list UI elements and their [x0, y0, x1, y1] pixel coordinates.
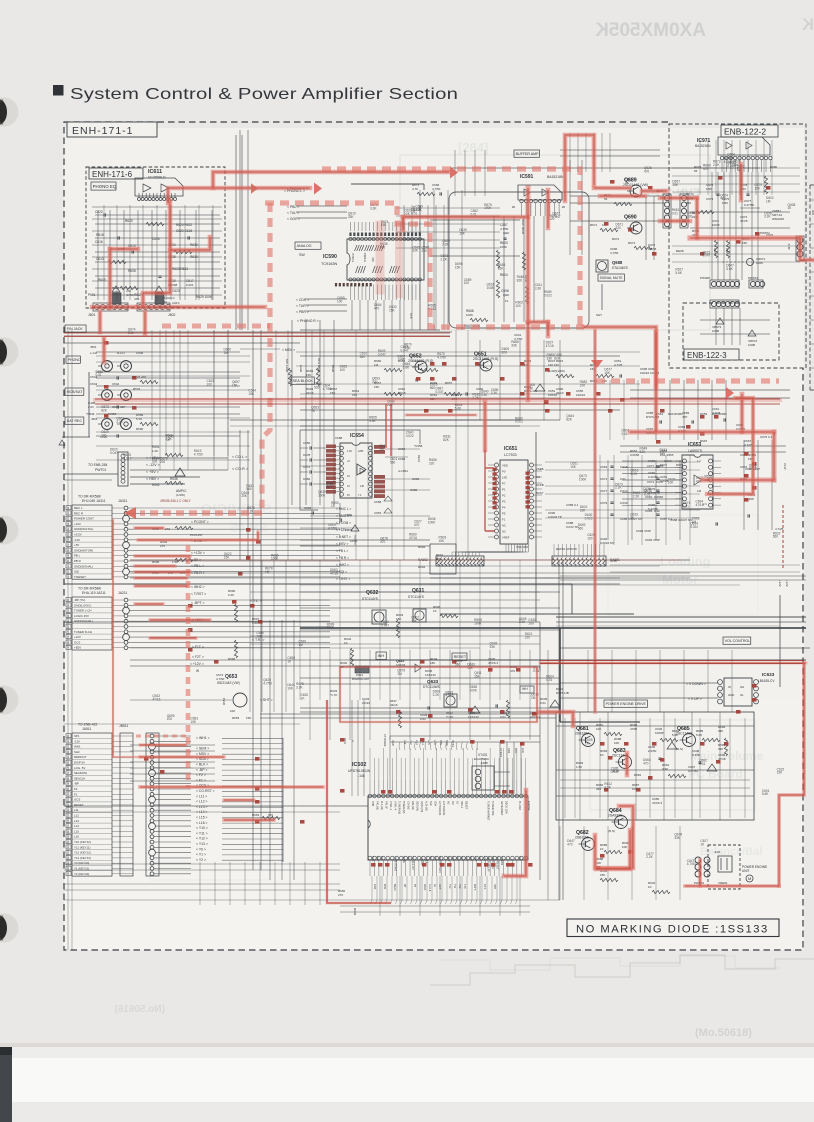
- svg-text:100K: 100K: [500, 245, 507, 249]
- svg-text:VOL CONTROL: VOL CONTROL: [725, 639, 751, 643]
- svg-text:(1/4W): (1/4W): [176, 493, 185, 497]
- svg-text:C675 0.1: C675 0.1: [760, 435, 773, 439]
- svg-text:TO ENB-284: TO ENB-284: [88, 463, 107, 467]
- svg-text:1.3K: 1.3K: [347, 450, 352, 453]
- svg-text:33K: 33K: [348, 215, 355, 219]
- svg-text:Y41.0F: Y41.0F: [384, 801, 387, 810]
- svg-text:IC591: IC591: [520, 174, 534, 180]
- svg-text:R602: R602: [418, 545, 426, 549]
- svg-text:< Y2 >: < Y2 >: [196, 858, 206, 862]
- svg-text:JL81: JL81: [714, 850, 721, 854]
- svg-text:W: W: [196, 669, 199, 673]
- svg-text:0.01: 0.01: [621, 432, 627, 436]
- svg-text:47/16: 47/16: [445, 694, 453, 698]
- svg-text:BN28101-097: BN28101-097: [352, 677, 370, 681]
- svg-text:C654: C654: [374, 511, 382, 515]
- svg-text:< F1 >: < F1 >: [196, 778, 206, 782]
- svg-text:L16: L16: [74, 835, 79, 839]
- svg-text:P4: P4: [502, 506, 506, 510]
- svg-text:< MSV >: < MSV >: [336, 542, 349, 546]
- svg-text:C677, 0.018: C677, 0.018: [647, 464, 664, 468]
- svg-text:0.01: 0.01: [672, 211, 678, 215]
- svg-text:LCTSSDATA: LCTSSDATA: [442, 801, 445, 816]
- svg-text:BH4: BH4: [383, 884, 386, 889]
- svg-text:(R,S): (R,S): [608, 829, 615, 833]
- svg-text:EHA-119 JA211: EHA-119 JA211: [82, 591, 106, 595]
- svg-text:470: 470: [374, 306, 380, 310]
- svg-text:1/50: 1/50: [706, 187, 712, 191]
- svg-text:(1/4W)(1/4W): (1/4W)(1/4W): [548, 369, 565, 373]
- svg-text:BEAS: BEAS: [393, 884, 396, 891]
- svg-text:STB: STB: [409, 313, 413, 319]
- svg-text:C679: C679: [600, 501, 608, 505]
- svg-text:1M: 1M: [223, 351, 228, 355]
- svg-text:15K: 15K: [439, 539, 446, 543]
- svg-text:DTC114WS: DTC114WS: [423, 685, 440, 689]
- svg-text:SEA BLOCK: SEA BLOCK: [293, 379, 314, 383]
- svg-text:R596: R596: [228, 657, 236, 661]
- svg-text:JA511: JA511: [82, 727, 91, 731]
- svg-text:C626: C626: [152, 237, 160, 241]
- svg-text:< +5V >: < +5V >: [146, 470, 159, 474]
- svg-text:IC590: IC590: [323, 254, 337, 260]
- svg-text:10K: 10K: [230, 709, 235, 713]
- svg-text:33K: 33K: [546, 357, 553, 361]
- svg-text:47K: 47K: [134, 297, 139, 301]
- svg-text:2.2K: 2.2K: [631, 472, 638, 476]
- svg-text:15K: 15K: [580, 509, 587, 513]
- svg-text:< -BPT >: < -BPT >: [191, 601, 205, 605]
- svg-text:LE: LE: [429, 856, 432, 859]
- svg-text:TUNER MARKET: TUNER MARKET: [487, 801, 490, 821]
- svg-text:1K: 1K: [648, 885, 652, 889]
- svg-text:TB: TB: [413, 884, 416, 888]
- svg-text:C678: C678: [303, 453, 311, 457]
- svg-text:KST-: KST-: [483, 884, 486, 890]
- svg-text:JA311: JA311: [118, 499, 127, 503]
- svg-text:82K: 82K: [640, 450, 647, 454]
- svg-text:NC: NC: [502, 530, 506, 534]
- svg-text:100K: 100K: [579, 477, 587, 481]
- svg-text:< L12 >: < L12 >: [196, 800, 208, 804]
- svg-text:L15: L15: [74, 829, 79, 833]
- svg-text:< TUR >: < TUR >: [296, 304, 309, 308]
- svg-text:15K: 15K: [330, 391, 335, 395]
- svg-text:JA7A: JA7A: [783, 463, 787, 470]
- svg-text:2SC1740S (R,S): 2SC1740S (R,S): [473, 357, 498, 361]
- svg-text:R577 47K: R577 47K: [285, 359, 289, 372]
- svg-text:TO DR-MX5BK: TO DR-MX5BK: [78, 495, 102, 499]
- svg-text:C689 0.1: C689 0.1: [566, 503, 579, 507]
- svg-text:ENH-171-1: ENH-171-1: [72, 125, 134, 137]
- svg-text:1M: 1M: [531, 696, 536, 700]
- svg-text:DECK 13M: DECK 13M: [505, 801, 508, 814]
- svg-text:PW408: PW408: [700, 276, 710, 280]
- svg-text:4.7/50: 4.7/50: [687, 862, 696, 866]
- svg-text:Y11: Y11: [453, 884, 456, 889]
- svg-text:10K: 10K: [754, 187, 761, 191]
- svg-text:C672: C672: [303, 465, 311, 469]
- svg-text:R672: R672: [612, 237, 620, 241]
- svg-text:R-CH: R-CH: [117, 351, 125, 355]
- svg-text:J972: J972: [787, 243, 791, 250]
- svg-text:FLR: FLR: [521, 748, 525, 753]
- svg-text:< T.RST >: < T.RST >: [191, 592, 206, 596]
- svg-text:15K: 15K: [246, 716, 251, 720]
- svg-text:15K: 15K: [374, 385, 379, 389]
- svg-text:470: 470: [644, 170, 650, 174]
- svg-text:15K: 15K: [600, 873, 605, 877]
- svg-text:OCT: OCT: [438, 884, 441, 890]
- svg-text:0.01: 0.01: [540, 701, 546, 705]
- svg-text:ACC: ACC: [514, 748, 518, 754]
- svg-text:KEY: KEY: [460, 856, 463, 861]
- svg-text:SQI: SQI: [74, 570, 79, 574]
- svg-text:ND2: ND2: [507, 748, 511, 754]
- svg-text:BAT: BAT: [433, 856, 436, 861]
- svg-text:*1.7K: *1.7K: [330, 693, 337, 697]
- svg-text:IC651: IC651: [504, 446, 518, 452]
- svg-text:JA211: JA211: [118, 591, 127, 595]
- svg-text:F2: F2: [74, 787, 78, 791]
- svg-text:R615: R615: [96, 233, 104, 237]
- svg-text:< BLK >: < BLK >: [196, 763, 208, 767]
- svg-text:1M: 1M: [374, 363, 379, 367]
- svg-text:+12V: +12V: [785, 580, 789, 587]
- svg-text:REC R: REC R: [74, 511, 83, 515]
- svg-text:#6: #6: [512, 205, 516, 209]
- svg-text:< F2T >: < F2T >: [192, 655, 204, 659]
- svg-text:C973: C973: [706, 197, 714, 201]
- svg-text:R690: R690: [136, 427, 144, 431]
- svg-text:Y11 (KEY11): Y11 (KEY11): [74, 845, 90, 849]
- svg-text:GND(SIGNAL): GND(SIGNAL): [74, 564, 93, 568]
- svg-text:< PCONT >: < PCONT >: [191, 520, 209, 524]
- svg-text:82K: 82K: [501, 351, 508, 355]
- svg-text:Y10 (KEY12): Y10 (KEY12): [74, 840, 91, 844]
- svg-text:REC L: REC L: [74, 506, 83, 510]
- svg-text:R674: R674: [628, 241, 636, 245]
- svg-text:ISD2144S (VW): ISD2144S (VW): [217, 681, 240, 685]
- svg-text:15K: 15K: [672, 183, 679, 187]
- svg-text:2.2K: 2.2K: [228, 593, 234, 597]
- svg-text:10/25: 10/25: [712, 223, 720, 227]
- svg-text:GND(LOGIC): GND(LOGIC): [74, 603, 91, 607]
- svg-text:15K: 15K: [455, 266, 462, 270]
- svg-text:INH: INH: [378, 654, 385, 658]
- svg-text:[284]: [284]: [458, 140, 488, 155]
- svg-text:TC1414- DT: TC1414- DT: [411, 856, 414, 870]
- svg-text:< PBR >: < PBR >: [296, 310, 309, 314]
- svg-text:RE98: RE98: [676, 249, 684, 253]
- svg-text:10K: 10K: [622, 845, 627, 849]
- svg-text:100/10: 100/10: [576, 393, 586, 397]
- svg-text:< CO.RST >: < CO.RST >: [196, 789, 215, 793]
- svg-text:P3: P3: [502, 500, 506, 504]
- svg-text:R576: R576: [133, 387, 141, 391]
- svg-text:100: 100: [167, 717, 173, 721]
- svg-text:C663: C663: [600, 465, 608, 469]
- svg-text:15K: 15K: [224, 555, 231, 559]
- svg-text:< PCOM >: < PCOM >: [336, 521, 351, 525]
- svg-text:33K: 33K: [660, 451, 667, 455]
- svg-text:33K: 33K: [490, 645, 497, 649]
- svg-text:100K: 100K: [484, 206, 492, 210]
- svg-text:1K: 1K: [344, 641, 348, 645]
- svg-text:1M: 1M: [397, 672, 402, 676]
- svg-text:1M: 1M: [766, 199, 771, 203]
- svg-text:0.022: 0.022: [515, 420, 523, 424]
- svg-text:R653: R653: [232, 716, 240, 720]
- svg-text:BATT-: BATT-: [473, 884, 476, 891]
- svg-text:0.0022 MY: 0.0022 MY: [600, 541, 615, 545]
- svg-text:PIN JACK: PIN JACK: [67, 327, 84, 331]
- svg-text:IHH: IHH: [522, 687, 528, 691]
- svg-text:DTC114YS: DTC114YS: [408, 595, 424, 599]
- svg-text:T.RESET: T.RESET: [74, 575, 86, 579]
- svg-text:R695 470K: R695 470K: [521, 219, 525, 234]
- svg-text:33K: 33K: [674, 836, 681, 840]
- svg-text:L12: L12: [74, 814, 79, 818]
- svg-text:3.3K: 3.3K: [662, 767, 668, 771]
- svg-text:< H6V >: < H6V >: [146, 477, 159, 481]
- svg-text:< +12V >: < +12V >: [190, 662, 204, 666]
- svg-text:C622: C622: [95, 210, 103, 214]
- svg-text:LE: LE: [433, 884, 436, 887]
- svg-text:100K: 100K: [756, 261, 763, 265]
- svg-text:AR MARKET: AR MARKET: [500, 801, 503, 816]
- svg-text:DAT: DAT: [372, 257, 375, 262]
- svg-text:IC611: IC611: [148, 169, 162, 175]
- svg-text:1/4W: 1/4W: [327, 626, 334, 630]
- svg-text:TO DR-MX5BK: TO DR-MX5BK: [78, 587, 102, 591]
- svg-text:14D: 14D: [502, 476, 507, 480]
- svg-text:2.01: 2.01: [420, 717, 426, 721]
- svg-text:0.47/50: 0.47/50: [744, 203, 754, 207]
- svg-text:VREF: VREF: [502, 536, 510, 540]
- svg-text:L-CH: L-CH: [90, 351, 97, 355]
- svg-text:AIR-(M): AIR-(M): [411, 801, 414, 810]
- svg-text:C677: C677: [600, 489, 608, 493]
- svg-text:2.2K: 2.2K: [646, 855, 653, 859]
- svg-text:47/16: 47/16: [152, 698, 160, 702]
- svg-text:D672: D672: [676, 463, 684, 467]
- svg-text:J561: J561: [91, 417, 98, 421]
- svg-text:DCS: DCS: [447, 856, 450, 862]
- svg-text:2.2K: 2.2K: [415, 208, 422, 212]
- svg-text:3.3K: 3.3K: [604, 786, 611, 790]
- svg-text:C688: C688: [335, 436, 343, 440]
- svg-text:3.3K: 3.3K: [481, 393, 488, 397]
- svg-text:TUNER: TUNER: [352, 253, 355, 262]
- svg-text:L11: L11: [74, 808, 79, 812]
- svg-text:15K: 15K: [777, 771, 784, 775]
- svg-text:< -BP >: < -BP >: [196, 768, 207, 772]
- svg-text:ENB-122-2: ENB-122-2: [724, 127, 766, 137]
- svg-text:15K: 15K: [352, 393, 357, 397]
- svg-text:CY DOWE: CY DOWE: [383, 734, 387, 747]
- svg-text:R654: R654: [222, 697, 226, 705]
- svg-text:P7: P7: [502, 482, 506, 486]
- svg-text:KEY: KEY: [464, 856, 467, 861]
- svg-text:Y10: Y10: [448, 884, 451, 889]
- svg-text:C684: C684: [398, 457, 406, 461]
- svg-text:47/16: 47/16: [409, 536, 417, 540]
- svg-text:3.3K: 3.3K: [370, 206, 377, 210]
- svg-text:220: 220: [160, 460, 166, 464]
- svg-text:MCB/SAT: MCB/SAT: [67, 390, 84, 394]
- svg-text:1K: 1K: [600, 753, 604, 757]
- svg-text:POWER CONT: POWER CONT: [74, 517, 94, 521]
- svg-text:+12V: +12V: [74, 522, 81, 526]
- svg-text:4-C694: 4-C694: [398, 469, 408, 473]
- svg-text:100B: 100B: [748, 343, 755, 347]
- svg-text:Y13: Y13: [463, 884, 466, 889]
- svg-text:Y13 (KEY13): Y13 (KEY13): [74, 856, 91, 860]
- svg-text:Q653: Q653: [225, 674, 237, 680]
- svg-text:BNT: BNT: [375, 856, 378, 861]
- svg-text:4.7/50: 4.7/50: [328, 527, 337, 531]
- svg-text:390: 390: [596, 787, 601, 791]
- svg-text:0.022: 0.022: [585, 517, 593, 521]
- svg-text:PCOUNT: PCOUNT: [190, 533, 203, 537]
- svg-text:VSS VDD: VSS VDD: [516, 545, 528, 549]
- svg-text:0.022: 0.022: [544, 293, 552, 297]
- svg-text:VHB: VHB: [371, 801, 374, 806]
- svg-text:J561: J561: [90, 345, 97, 349]
- svg-text:4.7/50: 4.7/50: [437, 355, 446, 359]
- svg-text:< L13 >: < L13 >: [196, 805, 208, 809]
- svg-text:1M: 1M: [298, 643, 303, 647]
- svg-text:18K: 18K: [430, 661, 435, 665]
- svg-text:0.01: 0.01: [500, 715, 506, 719]
- svg-text:1.5K: 1.5K: [576, 765, 582, 769]
- svg-text:OH: OH: [740, 685, 744, 689]
- svg-text:560: 560: [360, 355, 366, 359]
- svg-text:C693 470P: C693 470P: [645, 538, 660, 542]
- svg-text:PL-13M: PL-13M: [518, 801, 521, 810]
- svg-text:82K: 82K: [498, 266, 505, 270]
- svg-text:HC: HC: [447, 801, 450, 805]
- svg-text:< PB R >: < PB R >: [336, 556, 349, 560]
- svg-text:PW972: PW972: [760, 231, 770, 235]
- svg-text:S-CLK: S-CLK: [428, 884, 431, 892]
- svg-text:S-CLK: S-CLK: [424, 856, 427, 864]
- svg-text:MT: MT: [403, 884, 406, 888]
- svg-text:1M: 1M: [265, 570, 270, 574]
- svg-text:#6: #6: [562, 205, 566, 209]
- svg-text:560: 560: [314, 386, 320, 390]
- svg-text:4.7/50: 4.7/50: [610, 251, 619, 255]
- svg-text:C665, 0.12: C665, 0.12: [645, 509, 660, 513]
- svg-text:CT.KST: CT.KST: [499, 748, 503, 757]
- svg-text:0.022: 0.022: [690, 525, 698, 529]
- svg-text:10K: 10K: [152, 460, 159, 464]
- svg-text:SPA-1: SPA-1: [460, 801, 463, 809]
- svg-text:SHT: SHT: [596, 313, 602, 317]
- svg-text:C616: C616: [95, 240, 103, 244]
- svg-text:REMOUT: REMOUT: [74, 755, 87, 759]
- svg-text:SP-18M: SP-18M: [500, 856, 503, 865]
- svg-text:< T.RST >: < T.RST >: [336, 577, 350, 581]
- svg-text:100: 100: [101, 434, 107, 438]
- svg-text:470: 470: [510, 669, 515, 673]
- svg-text:< CO.R >: < CO.R >: [232, 467, 249, 471]
- svg-text:DATA: DATA: [423, 884, 426, 891]
- svg-text:0.0056: 0.0056: [630, 453, 640, 457]
- svg-text:1.3: 1.3: [697, 460, 701, 463]
- svg-text:1.2K: 1.2K: [152, 449, 158, 453]
- svg-text:KEY: KEY: [469, 856, 472, 861]
- svg-text:ENB-122-3: ENB-122-3: [687, 351, 727, 360]
- svg-text:47P: 47P: [682, 415, 687, 419]
- svg-text:100K: 100K: [469, 688, 477, 692]
- svg-text:2SB1287: 2SB1287: [575, 732, 589, 736]
- svg-text:C656: C656: [417, 454, 421, 462]
- svg-text:D681: D681: [634, 773, 642, 777]
- svg-text:82K: 82K: [101, 408, 108, 412]
- svg-text:82K: 82K: [554, 357, 561, 361]
- svg-text:1/50: 1/50: [722, 201, 728, 205]
- svg-text:GND: GND: [728, 693, 734, 697]
- svg-text:-1988: -1988: [480, 761, 488, 765]
- svg-text:4.7/50: 4.7/50: [724, 160, 733, 164]
- svg-text:PB L: PB L: [74, 554, 81, 558]
- svg-text:Q633: Q633: [427, 679, 439, 684]
- svg-text:SLE: SLE: [439, 740, 443, 745]
- svg-text:470: 470: [720, 197, 726, 201]
- svg-text:RESET: RESET: [464, 801, 467, 810]
- svg-text:SPK1: SPK1: [451, 740, 455, 748]
- svg-text:KEY: KEY: [478, 856, 481, 861]
- svg-text:82K: 82K: [566, 417, 573, 421]
- svg-text:Y12 (KEY12): Y12 (KEY12): [74, 851, 91, 855]
- svg-text:SLE: SLE: [429, 801, 432, 806]
- svg-text:R980: R980: [770, 165, 778, 169]
- svg-text:< T.L. >: < T.L. >: [250, 599, 262, 603]
- svg-text:C650: C650: [303, 441, 311, 445]
- svg-text:< T.R. >: < T.R. >: [252, 638, 265, 642]
- svg-text:WM2025: WM2025: [772, 217, 784, 221]
- svg-text:LOG. 5V: LOG. 5V: [74, 766, 85, 770]
- svg-text:0.047: 0.047: [378, 352, 386, 356]
- svg-text:F1: F1: [502, 518, 506, 522]
- svg-text:IC633: IC633: [762, 672, 775, 677]
- svg-text:15K: 15K: [742, 241, 747, 245]
- svg-text:5.6K: 5.6K: [675, 271, 682, 275]
- svg-text:(No.50616): (No.50616): [114, 1004, 165, 1015]
- svg-text:BA15218N: BA15218N: [547, 175, 564, 179]
- svg-text:43/16: 43/16: [390, 703, 398, 707]
- svg-text:2.2K: 2.2K: [442, 242, 449, 246]
- svg-text:+12V: +12V: [778, 580, 782, 587]
- svg-text:220: 220: [615, 226, 621, 230]
- svg-text:+5V: +5V: [74, 543, 79, 547]
- svg-text:Y0 (KEY00): Y0 (KEY00): [74, 861, 89, 865]
- svg-text:10K: 10K: [287, 687, 294, 691]
- svg-text:0.01: 0.01: [683, 504, 689, 508]
- svg-text:SW: SW: [299, 253, 305, 257]
- svg-text:C2/16: C2/16: [362, 701, 370, 705]
- svg-text:OL: OL: [740, 693, 744, 697]
- svg-text:PHONO EQ: PHONO EQ: [93, 184, 117, 189]
- svg-text:33K: 33K: [511, 344, 518, 348]
- svg-text:V.NFL-4: V.NFL-4: [393, 801, 396, 811]
- svg-text:-12V: -12V: [74, 538, 80, 542]
- svg-text:4R535-536.J.C ONLY: 4R535-536.J.C ONLY: [160, 499, 192, 503]
- svg-text:INH1: INH1: [74, 745, 81, 749]
- svg-text:560: 560: [390, 461, 396, 465]
